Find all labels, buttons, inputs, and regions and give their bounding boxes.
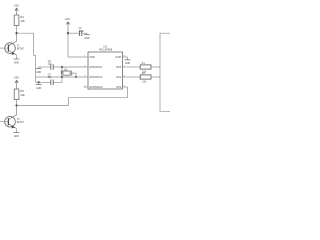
node ground C5 <box>38 81 40 83</box>
svg-text:7: 7 <box>124 65 125 67</box>
svg-text:T2: T2 <box>17 119 20 121</box>
wire R4 to node <box>16 26 18 34</box>
ground T1 <box>14 59 20 64</box>
svg-text:2: 2 <box>84 65 85 67</box>
wire node to C1 <box>68 32 79 34</box>
svg-text:GP3/MCLR: GP3/MCLR <box>89 85 102 89</box>
svg-text:R5: R5 <box>20 89 24 93</box>
svg-text:22p: 22p <box>48 77 53 79</box>
svg-text:C1: C1 <box>79 28 83 30</box>
svg-text:GND: GND <box>125 63 130 65</box>
svg-text:GP2: GP2 <box>116 85 122 89</box>
resistor R2 <box>140 73 151 83</box>
wire node right <box>17 32 34 34</box>
node collector T1 <box>15 32 17 34</box>
svg-text:R4: R4 <box>20 15 24 19</box>
crystal Q2 <box>61 67 71 76</box>
pin GP5/OSC1 <box>84 66 89 68</box>
node VDD <box>67 32 69 34</box>
wire GP0 to R1 <box>128 66 141 68</box>
wire crystal to OSC2 <box>72 73 76 77</box>
ground GND pin <box>125 57 131 65</box>
pin GP3/MCLR <box>84 86 89 88</box>
svg-text:22p: 22p <box>48 64 53 66</box>
ground T2 <box>14 133 20 138</box>
svg-text:GP5/OSC1: GP5/OSC1 <box>89 65 103 69</box>
wire GP2 route <box>69 87 128 106</box>
base lead T1 <box>0 47 8 49</box>
wire R2 to bus <box>151 76 160 78</box>
capacitor C5 <box>48 75 54 86</box>
OSC1 net <box>39 66 51 68</box>
svg-text:+5V: +5V <box>14 76 21 80</box>
wire down to C5 row <box>36 81 51 83</box>
svg-text:10k: 10k <box>142 81 147 83</box>
pin numbers <box>84 55 124 87</box>
svg-text:BC547: BC547 <box>17 122 25 124</box>
svg-text:4: 4 <box>84 85 85 87</box>
node C5 top <box>61 76 63 78</box>
pin GND <box>123 56 128 58</box>
svg-text:T1: T1 <box>17 46 20 48</box>
supply +5V for IC <box>64 17 71 33</box>
wire C1 to ground <box>82 33 87 34</box>
wire R1 to bus <box>151 66 160 68</box>
resistor R5 <box>14 89 25 100</box>
svg-text:GND: GND <box>36 88 41 90</box>
supply +5V bottom-left <box>14 76 21 89</box>
resistor R1 <box>140 63 151 73</box>
wire node right bottom <box>17 105 69 107</box>
pin GP0 <box>123 66 128 68</box>
emitter wire T2 <box>15 129 17 133</box>
wire GP1 to R2 <box>128 76 141 78</box>
svg-text:100n: 100n <box>79 31 85 33</box>
svg-text:VDD: VDD <box>89 55 95 59</box>
pin GP1 <box>123 76 128 78</box>
svg-text:+5V: +5V <box>64 17 71 21</box>
ground C4 <box>36 67 42 74</box>
IC pin labels <box>89 55 121 89</box>
resistor R4 <box>14 15 25 26</box>
svg-text:PIC12F508: PIC12F508 <box>99 48 113 52</box>
wire C4 to pin <box>53 66 83 68</box>
wire down long <box>34 33 36 82</box>
pin VDD <box>84 56 89 58</box>
node OSC1 <box>61 66 63 68</box>
node crystal OSC2 <box>75 76 77 78</box>
pin GP2 <box>123 86 128 88</box>
wire VDD node to pin <box>68 33 84 57</box>
IC1 PIC12F508 <box>88 44 123 89</box>
emitter wire T1 <box>15 55 17 59</box>
ground C1 <box>84 35 90 40</box>
wire C5 up to OSC2 <box>53 77 62 82</box>
svg-text:GP1: GP1 <box>116 75 122 79</box>
svg-text:GND: GND <box>14 62 19 64</box>
svg-text:+5V: +5V <box>14 3 21 7</box>
svg-text:8: 8 <box>124 55 125 57</box>
svg-text:GP0: GP0 <box>116 65 122 69</box>
OSC2 net <box>36 76 84 78</box>
svg-text:3: 3 <box>84 75 85 77</box>
svg-text:1: 1 <box>84 55 85 57</box>
svg-text:C4: C4 <box>48 61 52 63</box>
pin GP4/OSC2 <box>84 76 89 78</box>
svg-text:C5: C5 <box>48 75 52 77</box>
svg-text:GND: GND <box>84 38 89 40</box>
svg-text:GND: GND <box>14 136 19 138</box>
svg-text:6: 6 <box>124 75 125 77</box>
transistor T1 <box>5 33 25 55</box>
supply +5V top-left <box>14 3 21 15</box>
svg-text:GP4/OSC2: GP4/OSC2 <box>89 75 103 79</box>
svg-text:GND: GND <box>115 55 121 59</box>
ground C5 <box>36 82 42 90</box>
capacitor C1 <box>79 28 85 36</box>
base lead T2 <box>0 121 8 123</box>
svg-text:10k: 10k <box>20 19 25 23</box>
wire R5 to node <box>16 100 18 106</box>
svg-text:10k: 10k <box>20 93 25 97</box>
transistor T2 <box>5 106 25 129</box>
wire right bus <box>160 33 170 111</box>
svg-text:GND: GND <box>36 72 41 74</box>
capacitor C4 <box>48 61 54 70</box>
node collector T2 <box>15 104 17 106</box>
svg-text:BC547: BC547 <box>17 48 25 50</box>
svg-text:5: 5 <box>124 85 125 87</box>
